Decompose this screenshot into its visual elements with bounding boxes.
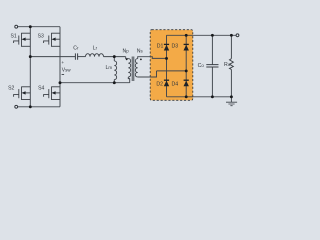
wire Ns bottom lead xyxy=(138,71,157,77)
wire Co bottom lead xyxy=(211,67,213,97)
junction Ns top D1 leg xyxy=(165,57,168,60)
terminal input bottom xyxy=(15,105,18,108)
wire bottom input rail xyxy=(18,106,60,108)
wire rectifier right leg D3 D4 xyxy=(185,35,187,97)
wire Ns top lead to D1-D2 node xyxy=(138,57,167,59)
diode D3 xyxy=(184,44,189,50)
polarity dot Np xyxy=(126,59,128,61)
transformer primary winding Np xyxy=(128,59,130,77)
svg-text:D1: D1 xyxy=(157,44,164,50)
transistor S2 xyxy=(14,87,31,101)
transformer secondary winding Ns xyxy=(135,59,137,77)
ground xyxy=(226,102,237,106)
wire output top rail xyxy=(167,34,237,36)
wire ground stub xyxy=(230,97,232,102)
wire output bottom rail xyxy=(167,96,232,98)
wire Ro top lead xyxy=(230,35,232,58)
junction top rail S1 xyxy=(29,25,32,28)
wire node A mid rail to Cr xyxy=(30,56,75,58)
junction Ro bottom xyxy=(230,95,233,98)
wire Cr to Lr xyxy=(78,56,86,58)
wire Np bottom lead xyxy=(128,77,129,83)
junction D3 leg link xyxy=(185,69,188,72)
wire Ro bottom lead xyxy=(230,70,232,97)
svg-text:S4: S4 xyxy=(38,86,44,92)
polarity dot Ns xyxy=(140,59,142,61)
svg-text:S1: S1 xyxy=(10,33,16,39)
capacitor Co plates xyxy=(206,65,218,67)
junction bottom rail S2 xyxy=(29,105,32,108)
diode D4 xyxy=(184,80,189,86)
terminal output xyxy=(236,34,239,37)
wire Np top lead xyxy=(126,57,129,59)
rectifier highlight box xyxy=(150,30,193,101)
junction Lm top xyxy=(113,55,116,58)
wire top input rail xyxy=(18,26,60,28)
svg-text:S3: S3 xyxy=(38,33,44,39)
wire node B return line xyxy=(60,82,130,84)
wire left leg column S1-S2 xyxy=(29,27,31,107)
wire Lr to Np top xyxy=(104,56,126,58)
wire rectifier left leg D1 D2 xyxy=(166,35,168,97)
inductor Lr xyxy=(86,54,104,57)
svg-text:D4: D4 xyxy=(172,81,179,87)
junction Co top xyxy=(211,34,214,37)
junction Co bottom xyxy=(211,95,214,98)
wire right leg column S3-S4 xyxy=(59,27,61,107)
wire Lm bottom lead xyxy=(113,80,115,83)
label Vsw minus xyxy=(62,74,65,76)
resistor Ro xyxy=(230,59,234,70)
transistor S3 xyxy=(44,33,60,47)
transformer core xyxy=(132,57,134,82)
wire Co top lead xyxy=(211,35,213,64)
junction Lm bottom xyxy=(113,81,116,84)
svg-text:D3: D3 xyxy=(172,44,179,50)
terminal input top xyxy=(15,25,18,28)
svg-text:S2: S2 xyxy=(8,86,14,92)
transistor S1 xyxy=(14,33,31,47)
svg-text:+: + xyxy=(61,61,64,66)
diode D1 xyxy=(164,44,169,50)
node B junction xyxy=(59,81,62,84)
wire link to D3-D4 node xyxy=(157,70,187,72)
junction Ro top xyxy=(230,34,233,37)
capacitor Cr plates xyxy=(75,53,77,59)
svg-text:D2: D2 xyxy=(156,81,163,87)
junction D3 top xyxy=(185,34,188,37)
wire Lm top lead xyxy=(113,57,115,61)
inductor Lm xyxy=(114,61,116,80)
node A junction xyxy=(29,55,32,58)
diode D2 xyxy=(164,80,169,86)
transistor S4 xyxy=(44,87,60,101)
junction D4 bottom xyxy=(185,95,188,98)
